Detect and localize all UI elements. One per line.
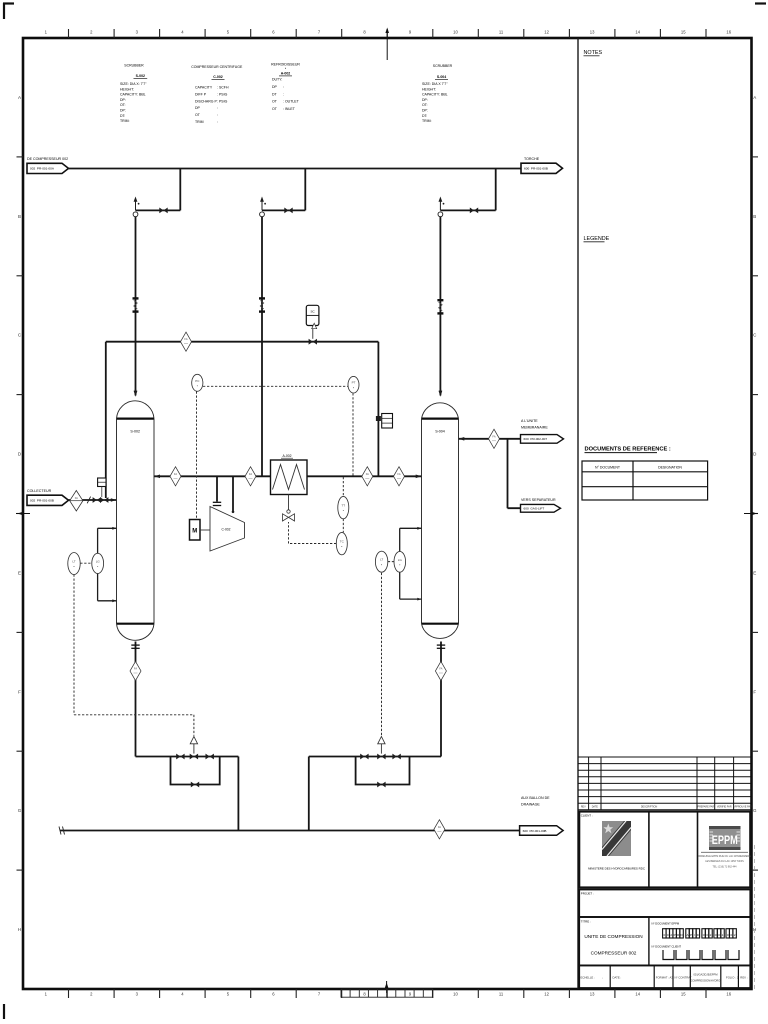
svg-text:B: B (753, 214, 756, 219)
wire: right drain bypass loop (356, 757, 410, 785)
spec break at drain header start (59, 827, 65, 835)
svg-text:CAPACITY: CAPACITY (195, 86, 213, 90)
signal: TC to louver (289, 522, 337, 544)
left manifold: gate valve 2 (206, 754, 214, 760)
svg-text:FOLIO : 1: FOLIO : 1 (726, 976, 739, 980)
svg-text:0: 0 (718, 933, 720, 937)
svg-text:APPROUVE PAR: APPROUVE PAR (733, 806, 752, 809)
svg-text:DESIGNATION: DESIGNATION (658, 466, 682, 470)
svg-text:001/GAZ/DJE/EPPM: 001/GAZ/DJE/EPPM (693, 973, 717, 977)
svg-text:A: A (753, 95, 756, 100)
drain header flow diamond (434, 820, 445, 839)
DRC flag logo (602, 821, 631, 856)
off-page connector: AUX BALLON DE DRAINAGE (520, 796, 564, 835)
documents de reference heading (585, 447, 671, 453)
svg-text:0: 0 (703, 933, 705, 937)
instrument PT (348, 376, 359, 393)
off-page connector: COLLECTEUR (27, 489, 69, 505)
svg-text:VERIFIE PAR: VERIFIE PAR (717, 806, 732, 809)
svg-text:15: 15 (681, 992, 686, 997)
svg-text:P: P (674, 933, 676, 937)
svg-text:M: M (192, 529, 197, 535)
svg-text:E: E (753, 570, 756, 575)
S-002 outlet flow diamond (170, 467, 181, 486)
legende heading (584, 236, 610, 242)
equipment data block C-002 (191, 65, 243, 124)
svg-text:A: A (18, 95, 21, 100)
svg-text:DE COMPRESSEUR 002: DE COMPRESSEUR 002 (27, 157, 68, 161)
arrow at S-004 overhead (459, 437, 465, 441)
svg-text:2: 2 (670, 933, 672, 937)
revision table (578, 757, 752, 810)
svg-text:SCRUBBER: SCRUBBER (433, 64, 453, 68)
svg-text:OT: OT (272, 100, 278, 104)
svg-text:LES BERGES DU LAC 1053 TUNIS: LES BERGES DU LAC 1053 TUNIS (705, 860, 744, 863)
svg-text:0: 0 (663, 933, 665, 937)
svg-text:A L'UNITE: A L'UNITE (521, 419, 538, 423)
svg-text:LT: LT (72, 560, 75, 564)
svg-text:I: I (694, 933, 695, 937)
equipment data block S-004 (422, 64, 453, 123)
restriction fitting on recycle riser (376, 414, 393, 429)
svg-text:12: 12 (544, 30, 549, 35)
svg-text:2: 2 (734, 933, 736, 937)
instrument TT (338, 496, 349, 518)
valve on header drop 3 (470, 208, 478, 214)
wire: header drop 3 (440, 169, 495, 396)
svg-text:N° DOCUMENT EPPM: N° DOCUMENT EPPM (652, 922, 680, 926)
notes heading (584, 50, 603, 56)
svg-text:B: B (18, 214, 21, 219)
svg-text:DESCRIPTION: DESCRIPTION (641, 806, 658, 809)
bottom centre folio strip (341, 989, 432, 997)
wire: S-004 bottom drain (309, 642, 441, 831)
svg-text:C-002: C-002 (213, 75, 223, 79)
projet row (579, 890, 750, 918)
svg-text:LEGENDE: LEGENDE (584, 236, 610, 242)
svg-text:TRIM:: TRIM: (120, 119, 130, 123)
grid column ticks and numbers (top/bottom) (69, 29, 707, 998)
svg-text:0: 0 (730, 933, 732, 937)
cooler fan louver (283, 495, 295, 522)
svg-text:EPPM: EPPM (712, 833, 738, 847)
compressor C-002 (210, 507, 245, 552)
instrument LT (68, 553, 80, 575)
svg-text:14: 14 (635, 30, 640, 35)
PSV station drop 3 (438, 197, 444, 217)
left manifold: drain control valve (190, 736, 198, 759)
off-page connector: A L UNITE MEMBRANAIRE (521, 419, 564, 443)
valve on header drop 1 (159, 208, 167, 214)
svg-text:SCRUBBER: SCRUBBER (124, 64, 144, 68)
wire: collecteur inlet to S-002 (69, 499, 117, 501)
EPPM logo (709, 826, 741, 850)
svg-text:PROJET :: PROJET : (581, 892, 594, 896)
svg-text:MEMBRANAIRE: MEMBRANAIRE (521, 426, 548, 430)
svg-text:PREPARE PAR: PREPARE PAR (697, 806, 714, 809)
svg-text:TRIM:: TRIM: (422, 119, 432, 123)
equipment data block S-002 (120, 64, 147, 124)
svg-text:F: F (18, 689, 21, 694)
outer dashed trim line right (754, 845, 756, 990)
svg-text:CAPACITY: BBL: CAPACITY: BBL (422, 93, 448, 97)
off-page connector: DE COMPRESSEUR 002 (27, 157, 69, 174)
wire: recycle line (106, 342, 379, 498)
svg-text:FORMAT : A3: FORMAT : A3 (656, 976, 674, 980)
svg-text::: : (217, 120, 218, 124)
svg-text:0: 0 (667, 933, 669, 937)
svg-text:HEIGHT:: HEIGHT: (422, 87, 436, 91)
off-page connector: TORCHE (521, 157, 563, 173)
svg-text:S-002: S-002 (136, 74, 145, 78)
signal: LT-LG right (388, 561, 394, 563)
svg-text:002 PR-001-00B: 002 PR-001-00B (30, 499, 54, 503)
svg-text:15: 15 (681, 30, 686, 35)
svg-text:600 GAS-LIFT: 600 GAS-LIFT (524, 507, 545, 511)
wire: drain collection header (60, 830, 520, 832)
instrument LG (92, 553, 104, 573)
S-004 level bridle (400, 527, 422, 601)
instrument PC (192, 374, 203, 391)
svg-text:12: 12 (544, 992, 549, 997)
svg-text:13: 13 (590, 30, 595, 35)
inlet double block valve with lock box (93, 478, 109, 503)
svg-text:CLIENT :: CLIENT : (581, 814, 593, 818)
titre row (579, 917, 750, 965)
svg-text:14: 14 (635, 992, 640, 997)
motor M (190, 520, 211, 541)
title block bottom row (579, 965, 750, 988)
S-004 inlet flow diamond (394, 467, 405, 486)
reference documents table (582, 461, 708, 500)
signal: left LT to drain valve (74, 575, 194, 736)
S-004 drain flow diamond (435, 661, 446, 680)
svg-text:TRIM: TRIM (195, 120, 204, 124)
svg-text:VERS SEPARATEUR: VERS SEPARATEUR (521, 498, 556, 502)
check symbol drop 3 (437, 300, 443, 313)
svg-text:16: 16 (726, 992, 731, 997)
arrow into S-002 top (134, 391, 138, 397)
svg-text:: INLET: : INLET (283, 107, 296, 111)
svg-text:DOCUMENTS DE REFERENCE :: DOCUMENTS DE REFERENCE : (585, 447, 671, 453)
instrument LT (375, 551, 387, 572)
svg-text:NOTES: NOTES (584, 50, 603, 56)
signal: TT tap (342, 477, 344, 496)
right manifold: drain control valve (377, 736, 385, 759)
signal: PC to motor (196, 392, 198, 520)
svg-text:11: 11 (499, 992, 504, 997)
wire: compressor discharge riser (232, 476, 234, 512)
svg-text:MINISTERE DES HYDROCARBURES RD: MINISTERE DES HYDROCARBURES RDC (588, 867, 645, 871)
svg-text:LG: LG (398, 558, 403, 562)
S-004 bottom nozzle flange (437, 645, 445, 648)
svg-text:OT:: OT: (422, 103, 428, 107)
vessel S-002 (117, 401, 155, 640)
svg-text:: PSIG: : PSIG (217, 99, 228, 103)
svg-text:AUX BALLON DE: AUX BALLON DE (521, 796, 550, 800)
svg-text:DT:: DT: (422, 114, 428, 118)
spec break on inlet (87, 497, 90, 504)
svg-text:TT: TT (341, 504, 345, 508)
S-002 bottom nozzle flange (131, 645, 139, 648)
svg-text:: PSIG: : PSIG (217, 92, 228, 96)
recycle control valve with positioner box (306, 305, 319, 344)
svg-text:TEL: (216) 71 962 444: TEL: (216) 71 962 444 (713, 866, 738, 869)
svg-text:COLLECTEUR: COLLECTEUR (27, 489, 52, 493)
svg-text:F: F (753, 689, 756, 694)
junction dot at compressor discharge (232, 511, 235, 514)
svg-text:COMPRESSION/HYDRO: COMPRESSION/HYDRO (691, 979, 721, 983)
signal: LT-LG left (80, 562, 92, 564)
svg-text:N° DOCUMENT: N° DOCUMENT (595, 466, 621, 470)
svg-text:11: 11 (499, 30, 504, 35)
svg-text:PT: PT (352, 381, 356, 385)
svg-text:1: 1 (722, 933, 724, 937)
S-002 level bridle (98, 527, 117, 602)
arrow at S-002 outlet (155, 475, 161, 479)
cooler outlet flow diamond (362, 467, 373, 486)
svg-text:COMPRESSEUR CENTRIFUGE: COMPRESSEUR CENTRIFUGE (191, 65, 243, 69)
svg-text:REV: REV (581, 806, 586, 809)
left bypass globe valve (191, 782, 199, 788)
svg-text:E: E (18, 570, 21, 575)
svg-text:SIZE: DIA X 7'7": SIZE: DIA X 7'7" (422, 82, 448, 86)
svg-text:CAPACITY: BBL: CAPACITY: BBL (120, 93, 146, 97)
right manifold: gate valve 2 (392, 754, 400, 760)
air cooler A-002 (271, 454, 308, 495)
svg-text:2: 2 (710, 933, 712, 937)
svg-text:600 PR-001-00B: 600 PR-001-00B (524, 167, 548, 171)
svg-text:DP:: DP: (422, 98, 428, 102)
collecteur double diamond (70, 491, 83, 512)
wire: S-004 overhead to membrane unit (459, 438, 521, 440)
svg-text:DP: DP (195, 106, 201, 110)
svg-text:DT:: DT: (120, 114, 126, 118)
svg-text:0: 0 (715, 933, 717, 937)
svg-text:13: 13 (590, 992, 595, 997)
svg-text:N° CONTRAT: N° CONTRAT (675, 976, 693, 980)
arrow into S-004 top (439, 391, 443, 397)
wire: header drop 1 (136, 169, 181, 396)
PSV station drop 2 (260, 197, 266, 217)
wire: left drain bypass loop (171, 757, 220, 785)
svg-text:TITRE :: TITRE : (581, 920, 591, 924)
arrow on inlet line (111, 498, 117, 502)
svg-text:DATE :: DATE : (613, 976, 622, 980)
svg-text:LG: LG (96, 559, 101, 563)
svg-text:0: 0 (727, 933, 729, 937)
svg-text:DISCHARG P: DISCHARG P (195, 99, 217, 103)
svg-text:DUTY:: DUTY: (272, 78, 282, 82)
arrow into S-004 inlet (416, 475, 422, 479)
svg-text:C-002: C-002 (222, 528, 231, 532)
svg-text:DP:: DP: (422, 109, 428, 113)
svg-text:10: 10 (453, 30, 458, 35)
signal: right LT to drain valve (381, 573, 383, 736)
notes column divider (577, 38, 579, 989)
svg-text:H: H (18, 927, 21, 932)
svg-text::: : (283, 85, 284, 89)
svg-text:0: 0 (706, 933, 708, 937)
PSV station drop 1 (133, 197, 139, 217)
svg-text:10: 10 (453, 992, 458, 997)
svg-text:OT: OT (195, 113, 201, 117)
valve on header drop 2 (284, 208, 292, 214)
wire: compressor suction drop (216, 476, 218, 501)
EPPM address lines (698, 852, 751, 868)
wire: branch to gas-lift separator (508, 439, 521, 508)
svg-text:G: G (753, 808, 757, 813)
svg-text::: : (283, 92, 284, 96)
svg-text:A-002: A-002 (281, 72, 291, 76)
recycle line flow diamond (181, 332, 192, 351)
right bypass globe valve (377, 782, 385, 788)
equipment data block A-002 (271, 63, 300, 112)
svg-text:S-004: S-004 (437, 75, 446, 79)
instrument TC (336, 532, 347, 554)
svg-text:LT: LT (380, 558, 383, 562)
left manifold: gate valve 1 (176, 754, 184, 760)
svg-text:SIZE: DIA X: 7'7": SIZE: DIA X: 7'7" (120, 82, 147, 86)
wire: S-002 bottom drain (136, 642, 239, 831)
signal: PC to PT (203, 385, 348, 387)
grid row ticks and letters (left/right) (17, 157, 759, 870)
svg-text:UNITE DE COMPRESSION: UNITE DE COMPRESSION (584, 934, 642, 939)
svg-text:P: P (690, 933, 692, 937)
right manifold: gate valve 1 (360, 754, 368, 760)
svg-text:S-002: S-002 (130, 430, 140, 434)
wire: suction header from compressor 002 to torche (69, 168, 522, 170)
svg-text:IMMEUBLE EPPM RUE DU LAC WINDE: IMMEUBLE EPPM RUE DU LAC WINDERMERE (698, 855, 751, 858)
svg-text:DP:: DP: (120, 109, 126, 113)
signal: PT tap (352, 393, 354, 476)
svg-text:HEIGHT:: HEIGHT: (120, 87, 134, 91)
svg-text:: OUTLET: : OUTLET (283, 100, 300, 104)
svg-text:OT: OT (272, 107, 278, 111)
wire: header drop 2 (262, 169, 305, 477)
cooler inlet flow diamond (245, 467, 256, 486)
svg-text:A-002: A-002 (282, 454, 291, 458)
wire: S-002 outlet / compressor discharge to S-004 (154, 475, 422, 477)
client logo block (579, 812, 750, 888)
signal: TT to TC (342, 519, 344, 533)
svg-text:DRAINAGE: DRAINAGE (521, 803, 540, 807)
svg-text:COMPRESSEUR 002: COMPRESSEUR 002 (591, 951, 637, 956)
svg-text::: : (217, 113, 218, 117)
svg-text:16: 16 (726, 30, 731, 35)
vessel S-004 (422, 403, 459, 639)
svg-text:DP: DP (272, 85, 278, 89)
svg-text::: : (217, 106, 218, 110)
svg-text:TORCHE: TORCHE (524, 157, 540, 161)
svg-text:DIFF P: DIFF P (195, 92, 207, 96)
svg-text:600 PR-001-00B: 600 PR-001-00B (523, 829, 547, 833)
svg-text:600 PR-002-007: 600 PR-002-007 (524, 437, 548, 441)
svg-text:002 PR-001-00A: 002 PR-001-00A (30, 167, 55, 171)
svg-text:S-004: S-004 (435, 430, 445, 434)
S-002 drain flow diamond (130, 661, 141, 680)
svg-text:FA: FA (75, 496, 78, 500)
svg-text:DATE: DATE (592, 806, 599, 809)
svg-text:OT:: OT: (120, 103, 126, 107)
svg-text:ECHELLE :: ECHELLE : (581, 976, 596, 980)
check symbol drop 1 (133, 298, 139, 311)
off-page connector: VERS SEPARATEUR (521, 498, 561, 512)
svg-text:REV :: REV : (740, 976, 748, 980)
membrane line flow diamond (489, 429, 500, 448)
svg-text:: SCFH: : SCFH (217, 86, 229, 90)
svg-text:G: G (18, 808, 22, 813)
svg-text:N° DOCUMENT CLIENT: N° DOCUMENT CLIENT (652, 945, 682, 949)
compressor suction flange (213, 502, 221, 505)
check symbol drop 2 (259, 298, 265, 311)
instrument LG (394, 551, 406, 572)
svg-text:DP:: DP: (120, 98, 126, 102)
svg-text:REFROIDISSEUR: REFROIDISSEUR (271, 63, 300, 67)
